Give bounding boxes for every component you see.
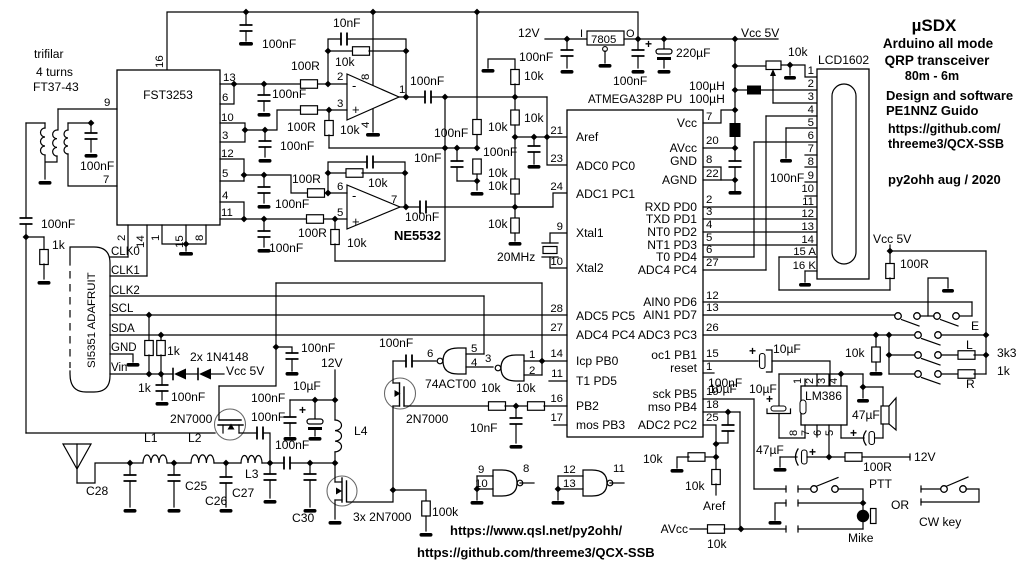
wire ADC3 to E switch — [703, 334, 915, 336]
pin 4 label — [222, 190, 228, 202]
title QRP transceiver — [885, 53, 991, 68]
junction C28 — [127, 460, 134, 467]
title PE1NNZ Guido — [886, 103, 979, 118]
pin 2 bottom label — [116, 235, 128, 241]
svg-text:Mike: Mike — [848, 531, 874, 545]
wire AIN1 PD7 — [703, 314, 895, 316]
svg-text:15: 15 — [706, 348, 719, 360]
junction Vcc5V rail — [732, 36, 739, 43]
svg-text:4: 4 — [828, 378, 840, 384]
label Vcc 5V — [741, 26, 780, 40]
label Vcc 5V diodes — [226, 364, 265, 378]
pin 1 NAND label — [524, 349, 542, 361]
capacitor 100nF row B — [259, 130, 272, 163]
pin 1 bottom label — [150, 235, 162, 241]
svg-text:8: 8 — [360, 74, 372, 80]
NAND gate U5D unused — [583, 470, 613, 496]
wire sck PB5 to PTT — [703, 399, 754, 489]
svg-text:1: 1 — [792, 378, 804, 384]
junction Q1 gate decouple — [273, 344, 280, 351]
svg-text:220µF: 220µF — [676, 46, 711, 60]
svg-text:100nF: 100nF — [41, 217, 75, 231]
svg-text:100R: 100R — [291, 59, 320, 73]
pin 5 label — [222, 168, 228, 180]
inductor L3 — [241, 456, 262, 463]
LCD pin 12 label — [801, 208, 814, 220]
svg-text:9: 9 — [104, 97, 110, 109]
resistor 1k R — [941, 370, 986, 379]
svg-text:Xtal1: Xtal1 — [576, 226, 604, 240]
capacitor 100nF opamp1 out — [425, 91, 547, 104]
ATMEGA right pin 7 Vcc labels — [677, 111, 713, 130]
label 1k pullup — [167, 344, 181, 358]
LM386 pin2 stub — [804, 374, 817, 386]
pin 3 opamp label — [337, 98, 343, 110]
svg-text:4: 4 — [706, 219, 712, 231]
svg-text:7: 7 — [800, 430, 812, 436]
diode D2 1N4148 — [186, 369, 211, 380]
svg-text:100µH: 100µH — [689, 92, 725, 106]
svg-text:100nF: 100nF — [379, 336, 413, 350]
junction top rail / op-amp V+ — [370, 9, 377, 16]
svg-text:100nF: 100nF — [483, 145, 517, 159]
junction bias rail top — [442, 94, 449, 101]
regulator U6 7805 — [580, 28, 635, 46]
wire Q1 drain to cap — [239, 432, 257, 434]
svg-text:Vcc 5V: Vcc 5V — [873, 232, 912, 246]
svg-text:100nF: 100nF — [405, 210, 439, 224]
resistor 10k feedback op1 — [328, 47, 406, 56]
ATMEGA right pin 3 TXD PD1 labels — [646, 206, 712, 226]
svg-text:12V: 12V — [321, 356, 343, 370]
LM386 pin3 stub — [816, 375, 829, 386]
label 10k PB2 b — [516, 381, 536, 395]
diode D1 1N4148 — [173, 369, 186, 380]
resistor 10k opamp1 bias — [325, 110, 334, 148]
label 10k pot — [788, 45, 808, 59]
ATMEGA right pin 1 reset labels — [670, 361, 712, 375]
wire Vin rail — [110, 373, 173, 375]
wire feedback2 left — [327, 173, 329, 193]
svg-text:7: 7 — [706, 111, 712, 123]
svg-text:SDA: SDA — [111, 323, 135, 335]
wire gnd drop — [862, 374, 864, 387]
ATMEGA right pin 5 NT1 PD3 labels — [647, 232, 712, 252]
wire diodes to Vcc — [211, 373, 224, 375]
LM386 pin7 stub — [800, 425, 817, 437]
label 3x 2N7000 — [353, 510, 412, 524]
label C30 — [292, 511, 314, 525]
svg-text:SI5351 ADAFRUIT: SI5351 ADAFRUIT — [86, 272, 98, 368]
ATMEGA right pin 4 NT0 PD2 labels — [647, 219, 712, 239]
resistor 10k PB2 a — [489, 402, 506, 411]
ATMEGA right pin 27 ADC4 PC4 labels — [638, 257, 719, 277]
label 12V input — [518, 26, 540, 40]
IC U7 LM386 box — [800, 386, 847, 425]
junction NAND3 tie — [474, 486, 481, 493]
ATMEGA right pin 26 ADC3 PC3 labels — [638, 322, 719, 342]
junction SCL pullup — [146, 312, 153, 319]
svg-text:9: 9 — [557, 221, 563, 233]
svg-text:https://github.com/: https://github.com/ — [888, 122, 1001, 136]
svg-text:100µH: 100µH — [689, 79, 725, 93]
pin 1 opamp label — [399, 84, 405, 96]
ATMEGA right pin 18 mso PB4 labels — [648, 399, 719, 414]
label E — [971, 319, 979, 333]
svg-text:27: 27 — [706, 257, 719, 269]
svg-text:C26: C26 — [205, 494, 227, 508]
svg-text:5: 5 — [706, 232, 712, 244]
svg-text:15 A: 15 A — [793, 246, 816, 258]
label 100nF opamp2 out — [405, 210, 439, 224]
label 100R row A — [291, 59, 320, 73]
label 10k v — [685, 479, 705, 493]
svg-text:ADC3 PC3: ADC3 PC3 — [638, 328, 697, 342]
svg-text:5: 5 — [222, 168, 228, 180]
junction NAND4 tie — [555, 486, 562, 493]
svg-text:3: 3 — [337, 98, 343, 110]
pin 5 NAND label — [466, 343, 484, 355]
label 100nF 7805 in — [519, 50, 553, 64]
resistor 100R row D — [307, 215, 324, 224]
LCD pin10 stub — [805, 195, 817, 197]
capacitor 100nF row C — [258, 175, 271, 209]
wire SDA to ADC4 — [110, 334, 567, 336]
ATMEGA right pin 22 AGND labels — [662, 168, 719, 187]
svg-text:CLK1: CLK1 — [111, 265, 140, 277]
junction L Vcc — [983, 352, 990, 359]
svg-text:100nF: 100nF — [280, 139, 314, 153]
svg-text:5: 5 — [808, 117, 814, 129]
wire divider top to ground — [482, 59, 516, 73]
junction transformer cap — [88, 120, 95, 127]
svg-text:100nF: 100nF — [708, 376, 742, 390]
pin 7 label — [103, 174, 109, 186]
junction bias rail mid — [442, 145, 449, 152]
ATMEGA left pin 23 ADC0 PC0 labels — [550, 153, 635, 173]
svg-text:Vcc: Vcc — [677, 116, 697, 130]
wire ADC1 jog — [515, 193, 567, 207]
label 2N7000 Q2 — [406, 412, 449, 426]
resistor 10k divider1 — [511, 70, 520, 98]
svg-text:-: - — [352, 78, 356, 93]
svg-text:100nF: 100nF — [301, 341, 335, 355]
svg-text:T1 PD5: T1 PD5 — [576, 374, 617, 388]
pin 9 label — [104, 97, 110, 109]
capacitor 10uF audio in — [749, 344, 772, 372]
wire 12V TX rail — [290, 370, 335, 400]
junction row C feedback — [325, 190, 332, 197]
wire NT0 PD2 to LCD13 — [703, 231, 817, 233]
svg-text:1: 1 — [150, 235, 162, 241]
svg-text:6: 6 — [222, 92, 228, 104]
label L — [966, 338, 973, 352]
svg-text:2N7000: 2N7000 — [170, 412, 213, 426]
svg-text:µSDX: µSDX — [912, 16, 957, 35]
label 10k AVcc — [707, 537, 727, 551]
label Aref net — [703, 499, 726, 513]
junction C27 — [267, 460, 274, 467]
junction pin4 gnd — [838, 371, 845, 378]
svg-text:8: 8 — [808, 156, 814, 168]
svg-text:O: O — [626, 28, 635, 40]
op-amp U2B triangle — [347, 185, 400, 229]
svg-text:3: 3 — [485, 353, 491, 365]
label 10k PB2 a — [481, 381, 501, 395]
op-amp U2A triangle — [347, 74, 399, 120]
svg-text:10nF: 10nF — [333, 16, 361, 30]
pin 12 label — [221, 148, 234, 160]
svg-text:8: 8 — [194, 235, 206, 241]
capacitor 100nF AVcc — [729, 148, 742, 195]
pin 17 mos PB3 stub — [554, 424, 567, 426]
svg-text:47µF: 47µF — [756, 443, 784, 457]
svg-text:11: 11 — [551, 368, 563, 380]
wire Vcc switch bus end — [985, 335, 987, 374]
svg-text:10k: 10k — [707, 537, 727, 551]
svg-text:100nF: 100nF — [613, 74, 647, 88]
wire NAND3 inputs tied — [471, 476, 484, 505]
label FT37-43 — [33, 80, 79, 94]
junction ADC2 a — [713, 441, 720, 448]
junction 220uF — [661, 36, 668, 43]
label 100nF mso — [708, 376, 742, 390]
transformer T1 middle winding — [46, 109, 58, 162]
capacitor 10nF PB2 — [510, 406, 523, 449]
wire feedback right — [405, 51, 407, 97]
label 100nF row C — [275, 197, 309, 211]
resistor 100R row C — [308, 189, 325, 198]
label R — [966, 377, 975, 391]
label 100nF Vin — [171, 390, 205, 404]
svg-text:L: L — [966, 338, 973, 352]
label 100R backlight — [900, 257, 929, 271]
svg-text:12: 12 — [801, 208, 814, 220]
resistor 10k E pulldown — [870, 335, 883, 376]
label Mike — [848, 531, 874, 545]
pin 16 label — [154, 55, 166, 68]
junction C30 — [307, 460, 314, 467]
svg-text:Vcc 5V: Vcc 5V — [741, 26, 780, 40]
junction Aref vert — [544, 134, 551, 141]
svg-text:L2: L2 — [188, 431, 202, 445]
ATMEGA left pin 11 T1 PD5 labels — [551, 368, 617, 388]
junction AGND — [732, 177, 739, 184]
svg-text:100nF: 100nF — [434, 126, 468, 140]
NAND gate U5C unused — [493, 470, 523, 496]
junction mike top — [860, 500, 867, 507]
svg-text:16: 16 — [550, 393, 563, 405]
pin 2 NAND label — [524, 361, 542, 377]
ATMEGA right pin 12 AIN0 PD6 labels — [643, 290, 718, 309]
url github bottom — [417, 545, 655, 560]
wire 12V audio row — [774, 457, 798, 472]
svg-text:5: 5 — [824, 430, 836, 436]
pin 3 label — [222, 130, 228, 142]
svg-text:100R: 100R — [900, 257, 929, 271]
label 100nF row B — [280, 139, 314, 153]
label 10k feedback op1 — [335, 55, 355, 69]
svg-text:2: 2 — [116, 235, 128, 241]
wire pin12 jog — [220, 159, 244, 181]
pin 1 reset stub — [703, 372, 714, 374]
wire Q1 gate from NAND line — [219, 283, 276, 386]
wire Vcc top rail — [167, 12, 638, 70]
label 10nF op2 — [414, 151, 442, 165]
svg-text:100nF: 100nF — [171, 390, 205, 404]
svg-text:10µF: 10µF — [773, 342, 801, 356]
svg-text:28: 28 — [550, 303, 563, 315]
capacitor 100nF row D — [258, 219, 271, 253]
wire NT1 PD3 to LCD14 — [703, 244, 817, 246]
LM386 pin8 stub — [788, 425, 805, 438]
wire LCD pin5 RW gnd — [780, 128, 817, 163]
wire GND si5351 — [110, 354, 140, 367]
wire pins 1,15,8 ground bus — [162, 225, 206, 256]
ATMEGA left pin 17 mos PB3 labels — [550, 412, 625, 432]
wire LCD pin4 RS — [766, 116, 817, 270]
ATMEGA left pin 27 ADC4 PC4 labels — [550, 322, 635, 342]
svg-text:https://www.qsl.net/py2ohh/: https://www.qsl.net/py2ohh/ — [450, 523, 623, 538]
svg-text:I: I — [580, 28, 583, 40]
capacitor 100nF Q1 gate — [276, 347, 299, 376]
transformer T1 left winding — [26, 123, 52, 185]
junction row B bias — [326, 107, 333, 114]
svg-text:ADC1 PC1: ADC1 PC1 — [576, 187, 635, 201]
svg-text:3: 3 — [706, 206, 712, 218]
capacitor 10nF feedback op2 — [328, 156, 405, 174]
svg-text:1: 1 — [529, 349, 535, 361]
junction bead tap — [732, 87, 739, 94]
svg-text:+: + — [645, 37, 652, 51]
svg-text:11: 11 — [221, 207, 233, 219]
svg-text:1k: 1k — [138, 381, 152, 395]
svg-text:CLK2: CLK2 — [111, 285, 140, 297]
junction E LR tap — [886, 332, 893, 339]
svg-text:100k: 100k — [432, 505, 459, 519]
svg-text:100nF: 100nF — [262, 37, 296, 51]
connector tick mic row3 L — [785, 526, 787, 532]
svg-text:LM386: LM386 — [805, 389, 842, 403]
label trifilar — [34, 47, 64, 61]
wire ADC0 tie — [547, 97, 567, 165]
label 4 turns — [36, 65, 73, 79]
wire speaker minus — [874, 424, 883, 438]
svg-text:Xtal2: Xtal2 — [576, 261, 604, 275]
svg-text:CLK0: CLK0 — [111, 246, 140, 258]
svg-text:AGND: AGND — [662, 173, 697, 187]
svg-text:20MHz: 20MHz — [497, 250, 535, 264]
wire row A — [220, 83, 347, 85]
junction TX rail 10uF — [312, 397, 319, 404]
svg-text:2: 2 — [808, 78, 814, 90]
label 100nF transformer — [80, 159, 114, 173]
pin 10 label — [221, 112, 234, 124]
junction L tap — [886, 352, 893, 359]
switch L — [889, 352, 941, 365]
label L4 — [354, 424, 368, 438]
label 100R row B — [287, 120, 316, 134]
capacitor 100nF top rail — [239, 12, 253, 46]
svg-text:6: 6 — [808, 130, 814, 142]
junction row D jog — [241, 216, 248, 223]
pin 15 bottom label — [174, 235, 186, 248]
junction 10nF node — [513, 403, 520, 410]
svg-text:12: 12 — [221, 148, 234, 160]
switch encoder B — [934, 313, 960, 326]
svg-text:2x 1N4148: 2x 1N4148 — [190, 350, 249, 364]
label AVcc — [661, 522, 688, 536]
label ATMEGA328P PU — [588, 93, 682, 106]
svg-text:5: 5 — [471, 343, 477, 355]
wire pin5 row C — [220, 180, 244, 182]
svg-text:10k: 10k — [488, 217, 508, 231]
svg-text:10k: 10k — [643, 452, 663, 466]
pin 11 label — [221, 207, 233, 219]
svg-text:1k: 1k — [52, 238, 66, 252]
resistor 10k feedback op2 — [328, 169, 405, 178]
svg-text:2: 2 — [804, 378, 816, 384]
junction Aref cap — [531, 134, 538, 141]
switch R — [889, 371, 941, 384]
transistor Q2 2N7000 driver — [385, 361, 416, 490]
svg-text:10k: 10k — [788, 45, 808, 59]
capacitor C30 — [304, 463, 317, 513]
wire ADC2 PC2 — [703, 425, 716, 444]
label 100nF bias — [434, 126, 468, 140]
svg-text:2N7000: 2N7000 — [406, 412, 449, 426]
wire CLK0 — [110, 256, 128, 258]
wire LCD pin3 wiper — [773, 102, 818, 104]
LCD pin 4 label — [808, 104, 814, 116]
junction row D bias — [332, 216, 339, 223]
wire SCL to ADC5 — [110, 314, 567, 316]
svg-text:PTT: PTT — [869, 477, 892, 491]
capacitor 100nF 7805 out — [632, 39, 645, 74]
svg-text:100nF: 100nF — [251, 391, 285, 405]
label 12V audio — [914, 450, 936, 464]
label 10k divider4 — [488, 217, 508, 231]
label 10uF TX rail — [293, 379, 321, 393]
svg-text:8: 8 — [523, 463, 529, 475]
pin 8 bottom label — [194, 235, 206, 241]
svg-text:23: 23 — [550, 153, 563, 165]
junction Q3 gate node — [390, 487, 397, 494]
label 100nF Q1 out — [251, 410, 285, 424]
svg-text:Arduino all mode: Arduino all mode — [883, 36, 994, 51]
wire NAND tie vertical — [541, 283, 543, 361]
svg-text:3: 3 — [808, 91, 814, 103]
label C26 — [205, 494, 227, 508]
capacitor 100nF LPF series — [284, 457, 290, 470]
label 100nF LPF — [275, 438, 309, 452]
speaker LS1 — [881, 398, 896, 430]
capacitor 47uF supply — [796, 445, 817, 465]
title github url 2 — [888, 137, 1004, 151]
svg-text:18: 18 — [706, 399, 719, 411]
title Design and software — [886, 88, 1013, 103]
resistor 1k SDA pullup — [157, 335, 166, 374]
junction row A cap — [261, 81, 268, 88]
label 10k bias upper — [488, 120, 508, 134]
wire LCD pin15 A — [779, 257, 890, 290]
junction pot gnd — [787, 62, 794, 69]
svg-text:https://github.com/threeme3/QC: https://github.com/threeme3/QCX-SSB — [417, 545, 655, 560]
label 20MHz — [497, 250, 535, 264]
wire Q2 gate from NAND — [393, 355, 436, 368]
svg-text:py2ohh aug / 2020: py2ohh aug / 2020 — [888, 172, 1001, 187]
label 10k bias2 — [347, 236, 367, 250]
